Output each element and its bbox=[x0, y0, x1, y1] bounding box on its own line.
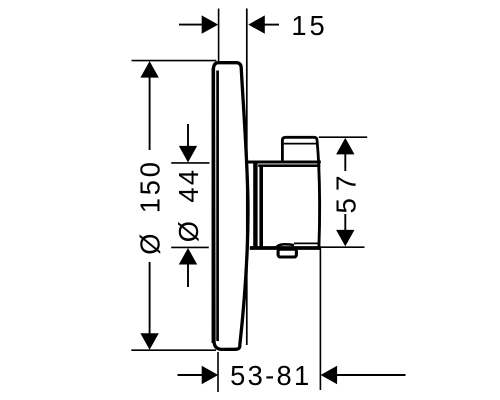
dim 15 right arrow bbox=[248, 15, 264, 33]
dim 15 left tail line bbox=[179, 24, 203, 26]
dim 53-81 left tail line bbox=[178, 374, 204, 376]
dim 53-81 left extension line bbox=[217, 352, 219, 392]
dim 57 line upper segment bbox=[344, 153, 346, 171]
body bottom edge bbox=[250, 246, 321, 250]
dim D150 down arrow bbox=[140, 333, 158, 350]
plate front face line bbox=[212, 68, 216, 343]
dim 53-81 right extension line bbox=[319, 249, 321, 391]
svg-text:57: 57 bbox=[331, 168, 362, 213]
dim 57 bottom extension line bbox=[320, 246, 365, 248]
dim D150 line upper segment bbox=[149, 75, 151, 150]
body inner left edge bbox=[259, 165, 263, 248]
body right edge bbox=[319, 162, 320, 248]
dim D44 bottom extension line bbox=[171, 246, 209, 248]
dim 57 up arrow bbox=[336, 138, 354, 155]
body inner bottom line bbox=[294, 242, 320, 244]
dim 15 right tail line bbox=[264, 24, 279, 26]
dim 53-81 right arrow bbox=[321, 366, 338, 384]
svg-text:15: 15 bbox=[291, 10, 327, 41]
dim D44 up arrow bbox=[179, 248, 197, 265]
handle knob inner line bbox=[284, 143, 317, 145]
dim D150 line lower segment bbox=[149, 262, 151, 336]
body inner top edge bbox=[258, 164, 320, 167]
dim 53-81 right tail line bbox=[336, 374, 406, 376]
svg-text:Ø 150: Ø 150 bbox=[135, 159, 166, 254]
dim 15 left extension line bbox=[218, 9, 220, 62]
plate front inner line bbox=[216, 71, 219, 342]
body outer left edge bbox=[253, 161, 257, 247]
dim D44 down arrow bbox=[179, 146, 197, 163]
wall line (right extension of dim 15) bbox=[246, 9, 248, 346]
svg-text:53-81: 53-81 bbox=[230, 360, 311, 391]
dim D44 line lower segment bbox=[187, 263, 189, 287]
escutcheon plate outline bbox=[213, 63, 248, 350]
dim D150 top extension line bbox=[132, 60, 217, 62]
dim D44 line upper segment bbox=[187, 124, 189, 147]
dim D150 bottom extension line bbox=[131, 349, 216, 351]
dim 57 top extension line bbox=[319, 136, 367, 138]
dim 57 line lower segment bbox=[344, 214, 346, 232]
dim 53-81 left arrow bbox=[202, 366, 219, 384]
bottom tab bbox=[278, 249, 296, 257]
dim 57 down arrow bbox=[336, 230, 354, 247]
dim D150 up arrow bbox=[140, 61, 158, 78]
dim 15 left arrow bbox=[202, 15, 219, 33]
dim D44 top extension line bbox=[171, 162, 209, 164]
body top edge bbox=[247, 161, 321, 164]
body inner bottom edge with tab bump bbox=[276, 244, 294, 248]
handle knob outline bbox=[282, 137, 318, 162]
svg-text:Ø 44: Ø 44 bbox=[173, 168, 204, 243]
